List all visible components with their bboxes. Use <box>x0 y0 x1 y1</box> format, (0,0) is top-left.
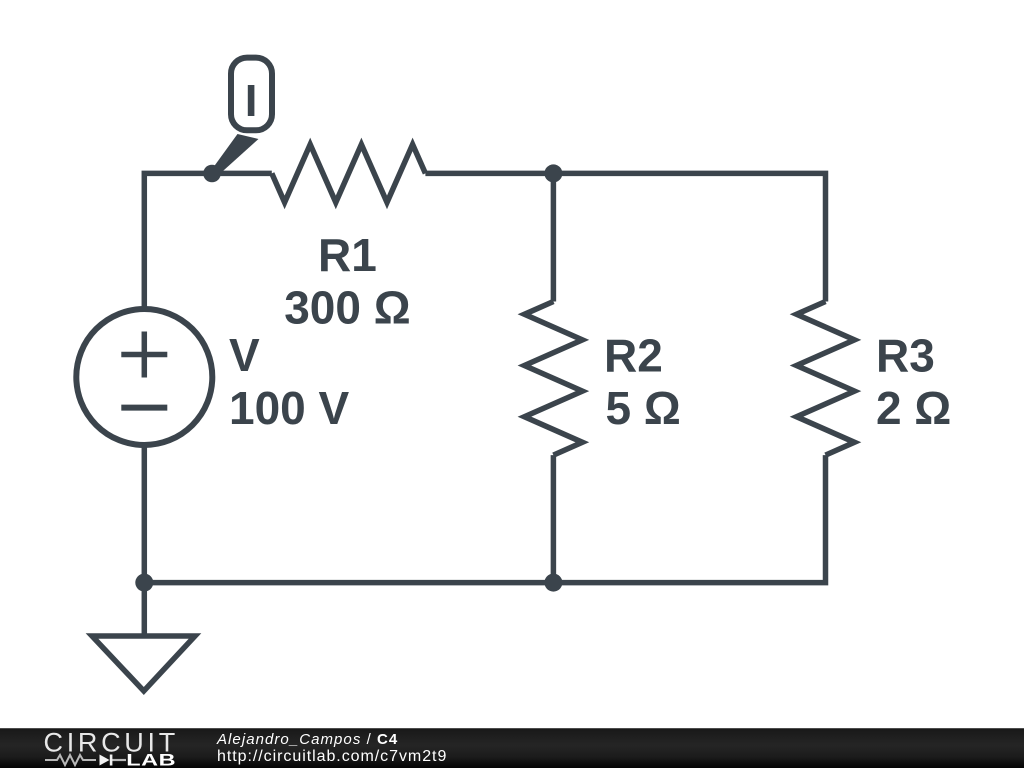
node dot: top junction at R2 <box>544 164 562 182</box>
node dot: bottom-left junction (ground) <box>135 574 153 592</box>
CircuitLab logo <box>40 728 190 768</box>
wire: R3 bottom lead + bottom horizontal <box>144 455 825 582</box>
svg-text:R1: R1 <box>318 229 377 281</box>
wire: V source bottom lead <box>142 444 148 583</box>
svg-text:100 V: 100 V <box>229 382 350 434</box>
wire: left vertical + top-left horizontal <box>144 173 271 310</box>
ground triangle <box>92 636 195 691</box>
credit line: author / title <box>217 732 398 747</box>
svg-text:R2: R2 <box>604 329 663 381</box>
svg-text:5 Ω: 5 Ω <box>606 382 681 434</box>
plus sign of source <box>121 332 167 378</box>
node dot: probe tap on top-left wire <box>203 165 221 183</box>
voltage source V circle <box>76 309 212 445</box>
svg-text:V: V <box>229 329 260 381</box>
wire: R2 top lead <box>551 173 557 301</box>
resistor R1 (zigzag) <box>272 144 426 202</box>
svg-text:300 Ω: 300 Ω <box>284 282 410 334</box>
resistor R2 (zigzag) <box>524 302 582 456</box>
node dot: bottom junction at R2 <box>544 574 562 592</box>
url line <box>217 749 447 765</box>
current probe I body (rounded rect) <box>231 58 272 131</box>
current probe I letter <box>248 85 255 116</box>
logo resistor-diode glyph <box>45 755 126 765</box>
wire: R2 bottom lead <box>551 455 557 582</box>
svg-text:2 Ω: 2 Ω <box>876 382 951 434</box>
svg-text:LAB: LAB <box>126 750 176 768</box>
ground stem <box>142 583 148 636</box>
resistor R3 (zigzag) <box>797 302 855 456</box>
svg-text:R3: R3 <box>876 329 935 381</box>
wire: top horizontal to top-right corner, down to R3 <box>425 173 825 301</box>
minus sign of source <box>121 405 167 411</box>
footer black bar <box>0 728 1024 768</box>
current probe I tail <box>213 134 259 175</box>
